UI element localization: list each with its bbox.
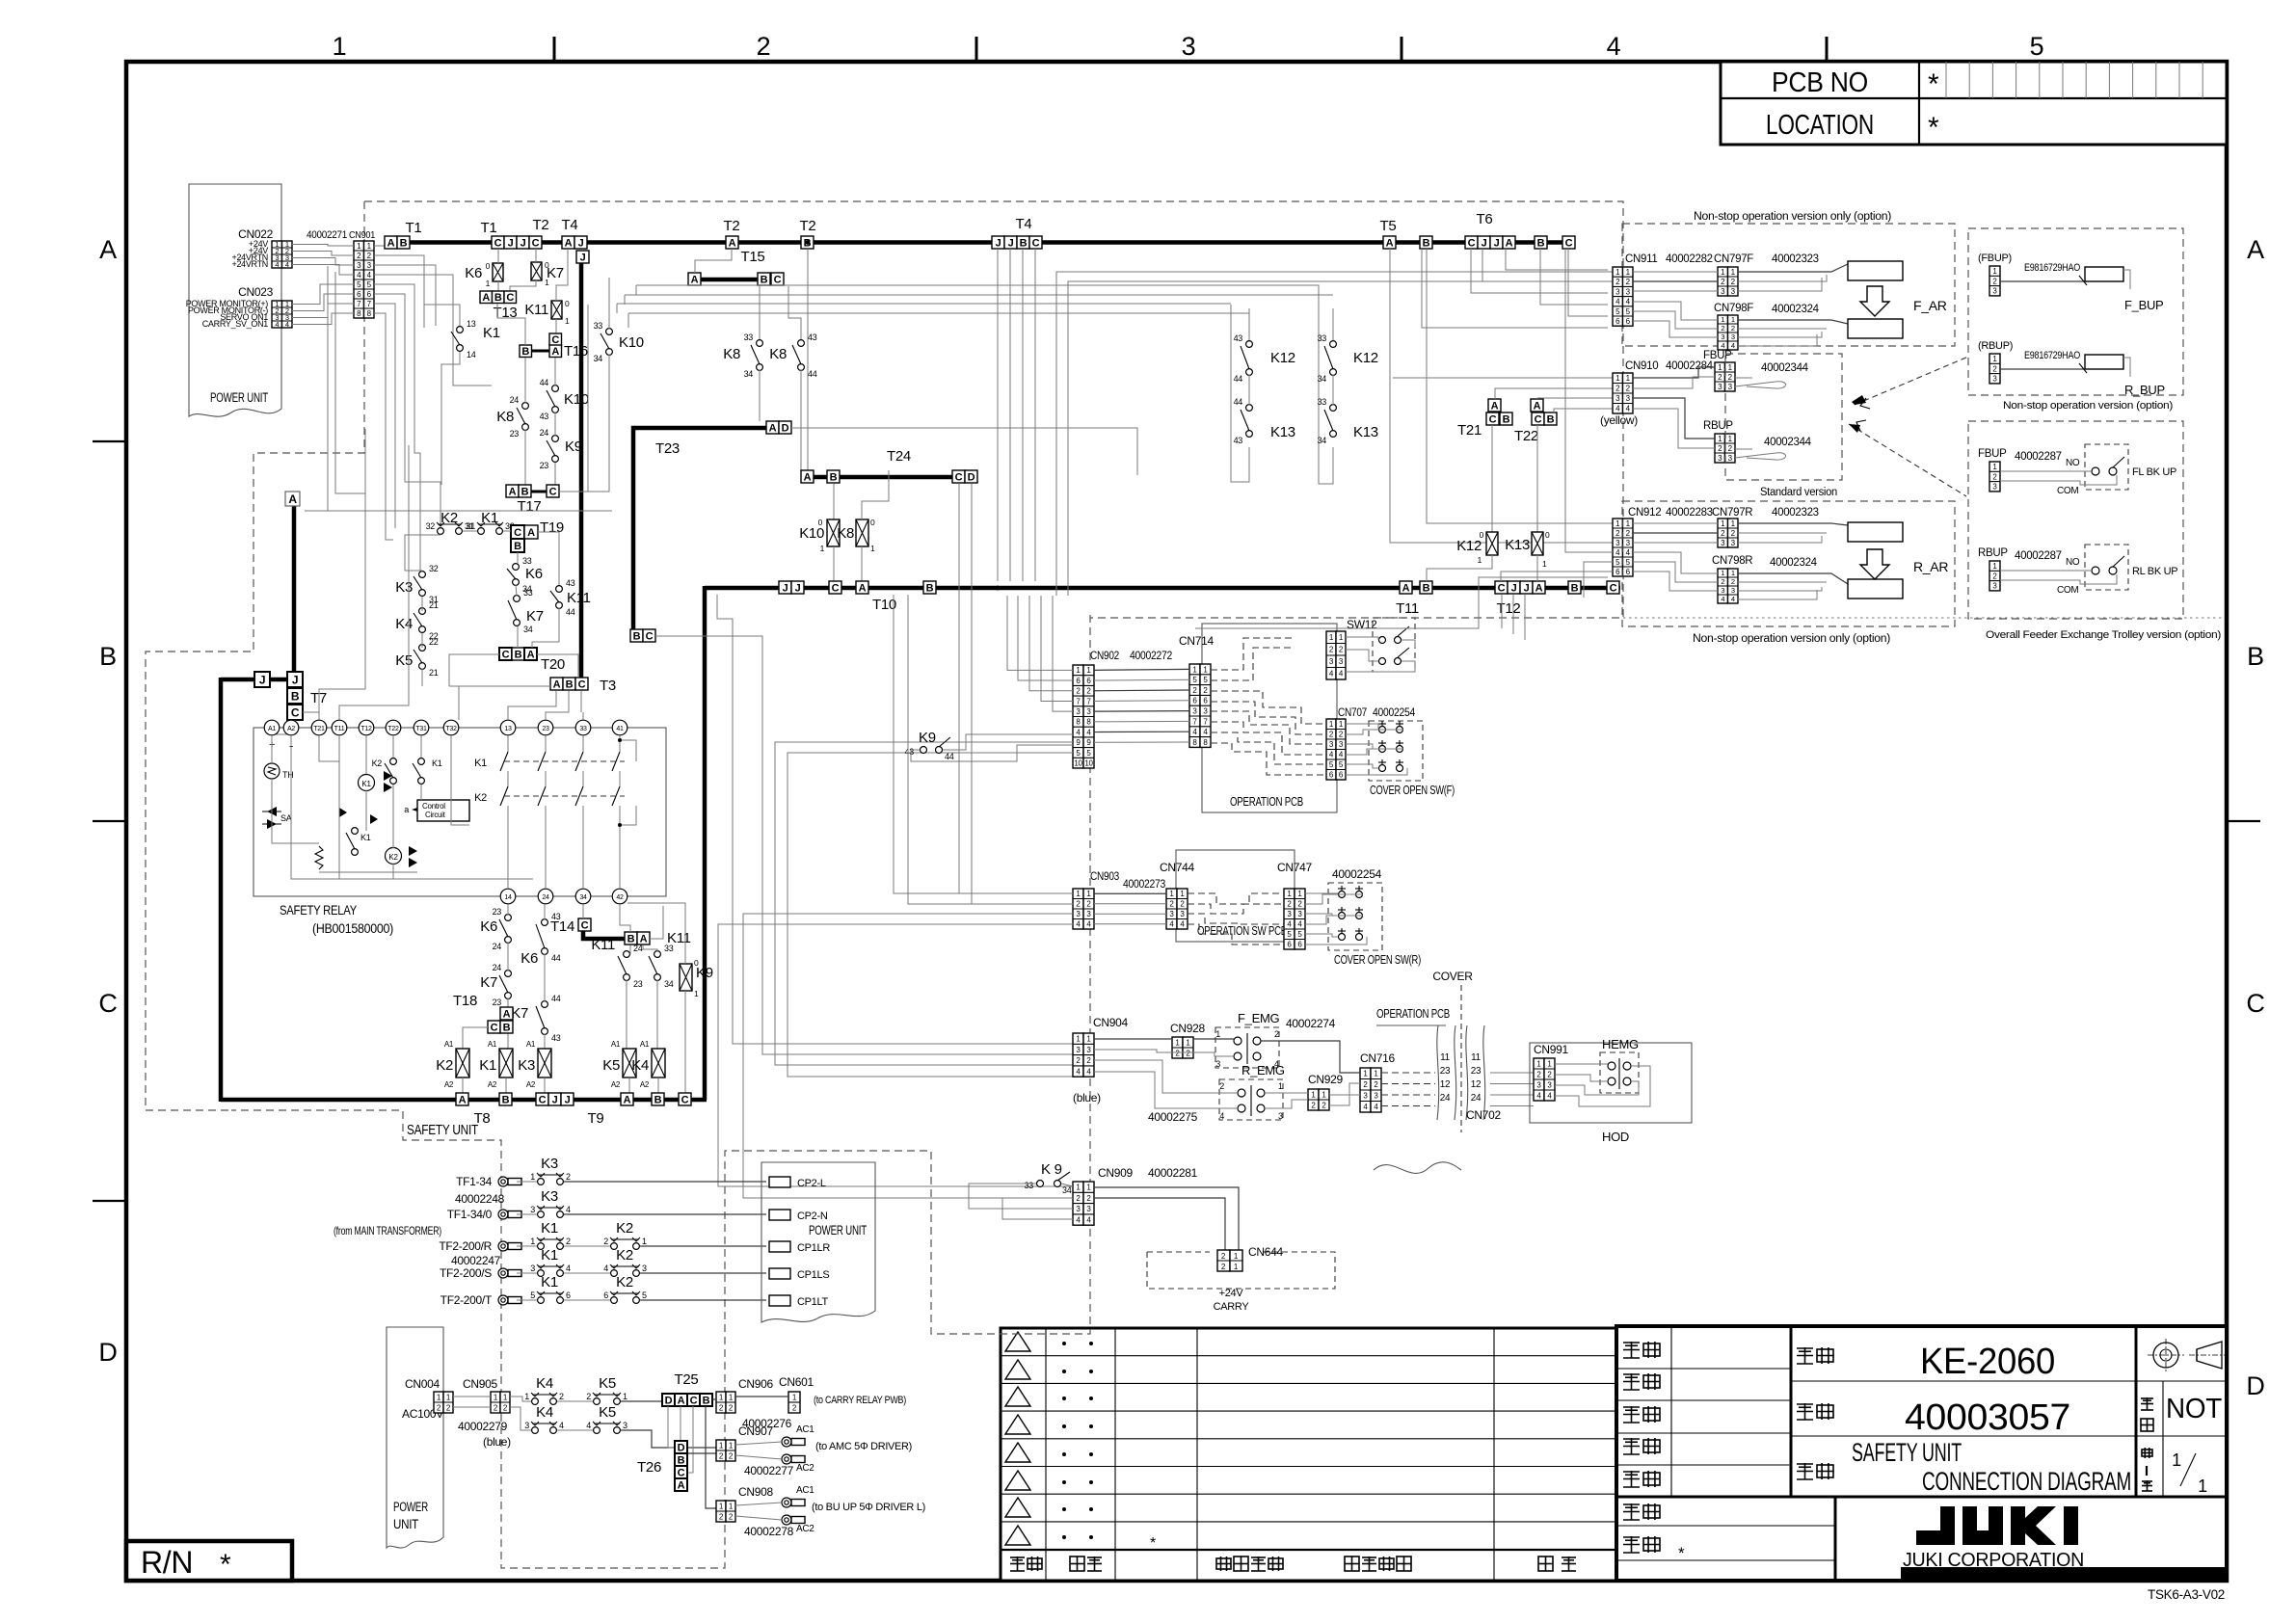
svg-text:T19: T19 xyxy=(540,519,564,536)
svg-text:HEMG: HEMG xyxy=(1602,1037,1639,1051)
projection symbol circle xyxy=(2153,1343,2178,1368)
terminal T8 boxes A B xyxy=(456,1093,468,1105)
connector CN022 xyxy=(272,241,282,268)
svg-text:23: 23 xyxy=(1440,1066,1451,1077)
connector CN023 xyxy=(272,301,282,328)
svg-text:B: B xyxy=(400,237,408,249)
relay coil K4 bottom xyxy=(652,1049,665,1078)
connector CN903 xyxy=(1073,889,1083,929)
svg-text:B: B xyxy=(515,649,522,660)
svg-text:CARRY: CARRY xyxy=(1214,1301,1250,1313)
wire verticals from T5 T6 down xyxy=(1390,249,1613,543)
cover open switches F xyxy=(1379,727,1386,733)
wire COM F xyxy=(2000,475,2117,485)
svg-text:F_AR: F_AR xyxy=(1913,298,1947,313)
wire U loop left xyxy=(1231,305,1249,482)
terminal T15 boxes xyxy=(688,273,701,285)
contact K10 mid pins 44 43 xyxy=(552,386,559,392)
wire C1 to K6 coil xyxy=(497,249,499,263)
svg-text:43: 43 xyxy=(540,412,549,421)
svg-text:K3: K3 xyxy=(518,1057,535,1074)
svg-text:A: A xyxy=(729,237,736,249)
terminal T4 right boxes J J B C xyxy=(992,236,1004,249)
wire bundle CN901 fanout right xyxy=(374,245,385,247)
svg-text:T22: T22 xyxy=(1514,428,1538,444)
connector RBUP2 xyxy=(1989,354,2000,384)
svg-text:K1: K1 xyxy=(360,833,371,842)
switch RL BK UP xyxy=(2092,567,2099,574)
svg-text:Overall Feeder Exchange Trolle: Overall Feeder Exchange Trolley version … xyxy=(1986,629,2221,641)
wire R_BUP corner xyxy=(2123,358,2130,377)
wire CN905 to K4 K5 row1 xyxy=(510,1397,531,1401)
svg-text:1: 1 xyxy=(623,1392,627,1401)
svg-text:K5: K5 xyxy=(599,1404,616,1421)
svg-text:40002281: 40002281 xyxy=(1148,1166,1198,1180)
svg-text:+24V: +24V xyxy=(1219,1288,1244,1299)
svg-text:AC2: AC2 xyxy=(796,1463,814,1474)
svg-text:A: A xyxy=(859,582,867,594)
wire T31 T32 internal xyxy=(420,735,422,758)
svg-text:T18: T18 xyxy=(453,993,477,1009)
svg-text:K 9: K 9 xyxy=(1041,1161,1062,1178)
svg-text:34: 34 xyxy=(1062,1185,1072,1195)
wire CN904 to CN928 F_EMG xyxy=(1094,1038,1172,1040)
svg-text:6: 6 xyxy=(603,1290,608,1300)
svg-text:40002277: 40002277 xyxy=(744,1464,794,1477)
svg-text:31: 31 xyxy=(467,521,476,531)
svg-text:T22: T22 xyxy=(387,726,399,732)
svg-text:3: 3 xyxy=(1731,586,1735,595)
connector CN714 xyxy=(1189,664,1200,747)
svg-text:CONNECTION DIAGRAM: CONNECTION DIAGRAM xyxy=(1922,1467,2131,1496)
zone tick marks top border xyxy=(553,37,556,62)
svg-text:TF1-34: TF1-34 xyxy=(456,1175,493,1188)
contact K12 mid-right pins 33 34 xyxy=(1330,341,1337,348)
svg-text:2: 2 xyxy=(1219,1081,1224,1091)
svg-text:B: B xyxy=(926,582,934,594)
svg-text:B: B xyxy=(830,471,838,483)
svg-text:RL BK UP: RL BK UP xyxy=(2132,566,2177,577)
svg-text:B: B xyxy=(1423,237,1430,249)
contact K3 TF row2 xyxy=(538,1211,545,1218)
svg-text:(HB001580000): (HB001580000) xyxy=(312,921,393,936)
svg-text:K2: K2 xyxy=(372,758,383,768)
svg-text:R_EMG: R_EMG xyxy=(1241,1063,1285,1078)
contact K2 TF row3 xyxy=(611,1243,618,1250)
svg-text:K4: K4 xyxy=(536,1404,553,1421)
dashed box SW12 switches xyxy=(1373,618,1415,672)
svg-text:(RBUP): (RBUP) xyxy=(1978,340,2013,352)
connector CN716 xyxy=(1360,1068,1371,1112)
svg-text:4: 4 xyxy=(275,320,279,329)
svg-text:J: J xyxy=(996,237,1001,249)
svg-text:A: A xyxy=(678,1395,685,1406)
svg-text:CN644: CN644 xyxy=(1248,1245,1283,1259)
wire CN903 left elbows xyxy=(894,595,1073,893)
svg-text:23: 23 xyxy=(510,429,520,439)
svg-text:COVER OPEN SW(F): COVER OPEN SW(F) xyxy=(1370,784,1455,797)
connector CN707 xyxy=(1326,719,1336,780)
svg-text:B: B xyxy=(514,541,521,552)
svg-text:23: 23 xyxy=(542,726,549,732)
svg-text:F_BUP: F_BUP xyxy=(2124,298,2163,312)
svg-text:44: 44 xyxy=(1234,374,1243,384)
safety relay terminals top row xyxy=(264,720,280,735)
svg-text:J: J xyxy=(521,237,526,249)
svg-text:24: 24 xyxy=(510,395,520,405)
wire K9 to CN909 xyxy=(1061,1184,1073,1186)
svg-text:K2: K2 xyxy=(616,1220,633,1237)
wire T15 C down to K8 second xyxy=(788,286,801,340)
wire CN910 to FBUP xyxy=(1633,367,1715,378)
svg-text:T16: T16 xyxy=(564,343,588,359)
svg-text:B: B xyxy=(521,486,529,497)
switch SW12 lower xyxy=(1379,658,1386,665)
svg-text:J: J xyxy=(783,582,788,594)
contact K13 mid-left pins 44 43 xyxy=(1246,405,1253,412)
svg-text:K9: K9 xyxy=(919,730,936,746)
svg-text:CARRY_SV_ON1: CARRY_SV_ON1 xyxy=(202,319,269,329)
svg-text:K10: K10 xyxy=(564,391,589,408)
connector FBUP xyxy=(1715,362,1725,391)
svg-text:J: J xyxy=(795,582,801,594)
svg-text:2: 2 xyxy=(1274,1029,1279,1039)
svg-text:K5: K5 xyxy=(602,1057,620,1074)
node A box left xyxy=(285,492,300,506)
connector CN910 xyxy=(1613,373,1623,413)
svg-text:K5: K5 xyxy=(599,1375,616,1392)
wire T26 to CN907 xyxy=(687,1452,716,1454)
svg-text:B: B xyxy=(99,642,117,671)
svg-text:3: 3 xyxy=(530,1205,535,1214)
wire K10 top up to corridor xyxy=(608,278,610,329)
svg-text:24: 24 xyxy=(493,963,502,972)
svg-text:23: 23 xyxy=(540,461,549,470)
contact K2 TF row5 xyxy=(611,1297,618,1304)
contact K11 column2 pins 43 44 xyxy=(556,586,563,593)
wire CN798F to cable F2 xyxy=(1738,320,1848,324)
svg-text:A1: A1 xyxy=(488,1040,497,1049)
svg-text:1: 1 xyxy=(1731,569,1735,577)
svg-text:CN912: CN912 xyxy=(1628,507,1661,519)
terminal AD boxes xyxy=(766,421,779,434)
svg-text:43: 43 xyxy=(1234,333,1243,343)
svg-text:44: 44 xyxy=(566,607,575,617)
svg-text:D: D xyxy=(98,1338,117,1367)
svg-text:5: 5 xyxy=(2030,32,2044,61)
wire T22 internal xyxy=(392,735,394,758)
svg-text:T5: T5 xyxy=(1380,218,1397,234)
contact K3 TF row1 xyxy=(538,1179,545,1185)
svg-text:*: * xyxy=(1678,1544,1685,1562)
svg-text:43: 43 xyxy=(808,333,817,342)
svg-text:B: B xyxy=(1020,237,1028,249)
wire 41 branch xyxy=(620,740,636,761)
svg-text:K10: K10 xyxy=(799,525,824,542)
svg-text:40003057: 40003057 xyxy=(1905,1397,2070,1438)
svg-text:SA: SA xyxy=(280,813,292,823)
svg-text:SAFETY RELAY: SAFETY RELAY xyxy=(280,903,357,918)
revision table header kanji xyxy=(1010,1556,1025,1571)
terminal T9 boxes C J J xyxy=(536,1093,548,1105)
svg-text:T24: T24 xyxy=(887,448,911,465)
svg-text:A: A xyxy=(804,471,812,483)
relay coil K5 bottom xyxy=(623,1049,636,1078)
svg-text:A2: A2 xyxy=(611,1080,621,1089)
svg-text:A: A xyxy=(1535,582,1543,594)
contact K9 mid pins 43 44 xyxy=(921,747,927,754)
svg-text:D: D xyxy=(678,1442,685,1453)
wire K10 bottom down xyxy=(559,355,609,492)
svg-text:CN702: CN702 xyxy=(1466,1108,1501,1122)
connector RBUP3 xyxy=(1989,561,2000,591)
contact K11 chain pins 24 23 xyxy=(624,951,630,958)
svg-text:1: 1 xyxy=(565,316,570,326)
svg-text:1: 1 xyxy=(1478,555,1482,565)
svg-text:K8: K8 xyxy=(837,525,854,542)
wire T2A to T15A xyxy=(695,249,732,273)
svg-text:COVER OPEN SW(R): COVER OPEN SW(R) xyxy=(1334,953,1421,967)
svg-text:K4: K4 xyxy=(631,1057,649,1074)
svg-text:40002248: 40002248 xyxy=(455,1192,505,1206)
svg-text:T8: T8 xyxy=(474,1110,491,1127)
svg-text:TF1-34/0: TF1-34/0 xyxy=(447,1208,493,1221)
wire T20 C left xyxy=(449,654,499,686)
svg-text:C: C xyxy=(532,237,540,249)
svg-text:SAFETY UNIT: SAFETY UNIT xyxy=(407,1123,478,1138)
wire T7 C to relay xyxy=(272,720,295,734)
svg-text:E9816729HAO: E9816729HAO xyxy=(2024,350,2081,361)
svg-text:B: B xyxy=(291,689,300,703)
svg-text:43: 43 xyxy=(566,578,575,588)
svg-text:E9816729HAO: E9816729HAO xyxy=(2024,262,2081,274)
svg-text:23: 23 xyxy=(493,907,502,917)
terminal T18 boxes xyxy=(500,1007,513,1020)
CP1LT box and label xyxy=(769,1295,790,1306)
svg-text:(blue): (blue) xyxy=(1073,1091,1101,1104)
svg-text:A: A xyxy=(691,274,699,285)
svg-text:1: 1 xyxy=(1721,315,1724,324)
wire CN798R to cable R2 xyxy=(1738,573,1848,584)
connector CN909 xyxy=(1073,1182,1083,1225)
svg-text:A: A xyxy=(527,527,535,539)
svg-text:44: 44 xyxy=(540,378,549,387)
svg-text:B: B xyxy=(654,1094,662,1105)
operation sw pcb box xyxy=(1176,850,1295,942)
svg-text:CN747: CN747 xyxy=(1277,861,1312,874)
svg-text:10: 10 xyxy=(1074,759,1082,768)
svg-text:23: 23 xyxy=(493,998,502,1007)
svg-text:*: * xyxy=(1928,68,1939,100)
svg-text:CP2-N: CP2-N xyxy=(797,1211,828,1222)
svg-text:40002344: 40002344 xyxy=(1761,362,1809,374)
svg-text:K13: K13 xyxy=(1353,424,1378,440)
svg-text:C: C xyxy=(1535,413,1542,425)
svg-text:LOCATION: LOCATION xyxy=(1766,110,1874,141)
svg-text:24: 24 xyxy=(493,942,502,951)
svg-text:K1: K1 xyxy=(361,780,371,788)
svg-text:(yellow): (yellow) xyxy=(1600,413,1638,427)
wire heavy T16 B to A xyxy=(531,350,549,353)
contact K5 bottom row1 xyxy=(594,1398,601,1405)
svg-text:AC2: AC2 xyxy=(796,1524,814,1534)
svg-text:B: B xyxy=(566,678,574,690)
wire CN902 to CN714 xyxy=(1094,668,1189,671)
svg-text:K7: K7 xyxy=(511,1005,528,1022)
svg-text:*: * xyxy=(220,1549,231,1581)
svg-text:T10: T10 xyxy=(872,597,896,613)
svg-text:T4: T4 xyxy=(562,217,578,233)
connector CN004 xyxy=(434,1392,443,1413)
svg-text:CN907: CN907 xyxy=(738,1424,773,1438)
terminal T25 boxes D A C B xyxy=(662,1394,675,1406)
dashed box feeder exchange trolley option xyxy=(1968,421,2183,619)
svg-text:TF2-200/S: TF2-200/S xyxy=(440,1266,492,1280)
svg-text:40002274: 40002274 xyxy=(1286,1017,1336,1030)
wire K11 to T20 A xyxy=(532,608,559,648)
svg-text:A: A xyxy=(288,492,297,506)
svg-text:1: 1 xyxy=(1278,1081,1283,1091)
svg-text:D: D xyxy=(2246,1371,2264,1400)
terminal T6 boxes C J J A xyxy=(1465,236,1478,249)
svg-text:T15: T15 xyxy=(741,249,765,265)
wire TF row3 to CP1LR xyxy=(517,1245,537,1247)
wire CN797F to cable F xyxy=(1738,264,1848,272)
svg-text:4: 4 xyxy=(603,1264,608,1273)
svg-text:C: C xyxy=(1565,237,1573,249)
svg-text:CN991: CN991 xyxy=(1534,1043,1568,1056)
svg-text:K1: K1 xyxy=(479,1057,496,1074)
svg-text:A: A xyxy=(565,237,573,249)
wire heavy T15 xyxy=(701,278,758,282)
svg-text:J: J xyxy=(1524,582,1530,594)
boundary dashed left side xyxy=(146,201,364,1110)
wire T3 to relay terminals xyxy=(508,691,556,720)
CP1LS box and label xyxy=(769,1268,790,1279)
wire U loop right xyxy=(1319,305,1333,484)
wire heavy left to J T7 xyxy=(221,678,254,682)
contact K7 column2 pins 33 34 xyxy=(514,596,521,602)
svg-text:CN909: CN909 xyxy=(1098,1166,1133,1180)
svg-text:C: C xyxy=(690,1395,698,1406)
svg-text:TH: TH xyxy=(282,770,293,780)
svg-text:B: B xyxy=(502,1094,510,1105)
wire K8 to T17 xyxy=(524,430,526,485)
wire chains vertical links xyxy=(507,904,509,915)
svg-text:34: 34 xyxy=(523,625,533,634)
svg-text:43: 43 xyxy=(551,912,561,921)
contact K5 bottom row2 xyxy=(594,1427,601,1434)
relay coil K8 mid xyxy=(856,519,868,546)
connector CN644 xyxy=(1217,1250,1230,1271)
svg-text:J: J xyxy=(1511,582,1517,594)
wire T4 A to K11 coil xyxy=(556,249,568,301)
svg-text:PCB NO: PCB NO xyxy=(1772,67,1868,98)
svg-text:6: 6 xyxy=(566,1290,571,1300)
svg-text:B: B xyxy=(633,630,641,642)
operation pcb box xyxy=(1202,624,1337,812)
svg-text:Control: Control xyxy=(422,802,445,811)
svg-text:T6: T6 xyxy=(1477,211,1493,227)
svg-text:D: D xyxy=(968,471,975,483)
svg-text:C: C xyxy=(1032,237,1040,249)
contact K8 top chain pins 24 23 xyxy=(522,403,529,410)
svg-text:2: 2 xyxy=(603,1237,608,1246)
svg-text:A: A xyxy=(1386,237,1394,249)
svg-text:11: 11 xyxy=(1471,1052,1482,1063)
svg-text:CN901: CN901 xyxy=(349,229,375,241)
svg-text:CN798R: CN798R xyxy=(1712,555,1752,567)
dashed box R_EMG xyxy=(1219,1079,1283,1120)
svg-text:44: 44 xyxy=(808,369,817,379)
svg-text:A1: A1 xyxy=(268,726,276,732)
svg-text:33: 33 xyxy=(1318,333,1327,343)
svg-text:K11: K11 xyxy=(591,937,615,953)
svg-text:RBUP: RBUP xyxy=(1978,547,2008,559)
svg-text:A: A xyxy=(624,1094,631,1105)
svg-text:1: 1 xyxy=(524,1392,529,1401)
wire T14 A right xyxy=(650,906,663,939)
wire heavy J-J link xyxy=(270,678,287,682)
svg-text:A: A xyxy=(1402,582,1410,594)
svg-text:0: 0 xyxy=(565,299,570,308)
svg-text:2: 2 xyxy=(566,1172,571,1182)
svg-text:4: 4 xyxy=(566,1205,571,1214)
dashed box cover open R xyxy=(1328,883,1382,950)
svg-text:42: 42 xyxy=(616,894,624,901)
wire internal bottom rail xyxy=(338,738,340,879)
svg-text:12: 12 xyxy=(1471,1079,1482,1090)
svg-text:43: 43 xyxy=(905,747,915,757)
svg-text:40002323: 40002323 xyxy=(1772,507,1819,519)
dashed pointer arrow to trolley xyxy=(1849,424,1966,496)
svg-text:1: 1 xyxy=(2172,1450,2181,1470)
svg-text:0: 0 xyxy=(545,260,549,270)
connector CN797R xyxy=(1718,519,1728,547)
svg-text:21: 21 xyxy=(429,668,439,678)
svg-text:13: 13 xyxy=(467,319,476,329)
svg-text:UNIT: UNIT xyxy=(393,1517,418,1531)
svg-text:(blue): (blue) xyxy=(483,1435,511,1449)
svg-text:C: C xyxy=(539,1094,547,1105)
wire T21 T22 to CN910 xyxy=(1393,377,1613,379)
svg-text:3: 3 xyxy=(524,1421,529,1430)
svg-text:SAFETY UNIT: SAFETY UNIT xyxy=(1852,1438,1962,1467)
svg-text:1: 1 xyxy=(2198,1477,2207,1496)
CP1LR box and label xyxy=(769,1241,790,1252)
svg-text:13: 13 xyxy=(504,726,512,732)
terminal T2 mid B box xyxy=(801,236,814,249)
revision table date dots xyxy=(1062,1342,1066,1345)
relay internal coil K1 xyxy=(359,775,375,791)
relay coil K3 bottom xyxy=(538,1049,551,1078)
svg-text:POWER UNIT: POWER UNIT xyxy=(210,390,268,405)
wire dashed CN714 to CN707 xyxy=(1211,691,1326,724)
svg-text:3: 3 xyxy=(1215,1059,1220,1069)
wire F_EMG to CN716 xyxy=(1261,1041,1360,1073)
svg-text:24: 24 xyxy=(1440,1093,1451,1104)
svg-text:C: C xyxy=(832,582,840,594)
cover open switches R xyxy=(1339,891,1346,898)
svg-text:K13: K13 xyxy=(1505,537,1530,553)
svg-text:23: 23 xyxy=(633,979,643,989)
CP2-N box and label xyxy=(769,1210,790,1220)
svg-text:A1: A1 xyxy=(611,1040,621,1049)
svg-text:14: 14 xyxy=(467,350,476,359)
contact K9 pins 24 23 xyxy=(552,436,559,442)
contact K2 internal xyxy=(390,758,397,765)
wire K8 bottoms down xyxy=(759,370,761,421)
